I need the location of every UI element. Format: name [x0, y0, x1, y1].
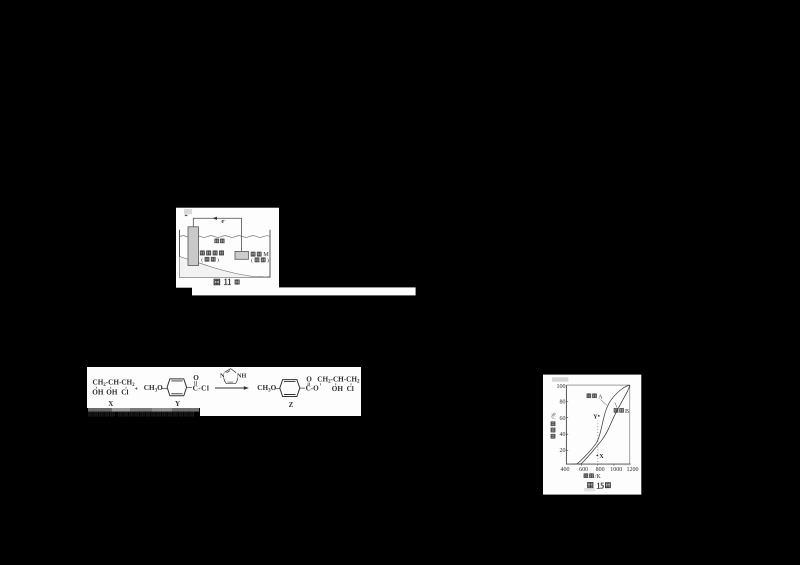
dashed line at 800K: [597, 421, 599, 464]
white panel: [176, 208, 279, 288]
svg-text:OH: OH: [106, 389, 118, 397]
point X: [596, 455, 598, 457]
bond ring-C: [187, 386, 192, 388]
white panel: [543, 375, 641, 495]
svg-text:X: X: [108, 400, 113, 408]
label water: [215, 239, 219, 243]
svg-text:600: 600: [579, 467, 588, 473]
label 曲线B: [614, 409, 618, 413]
svg-text:C-O: C-O: [306, 384, 320, 392]
y axis title 转化率/%: [551, 413, 557, 439]
svg-text:(: (: [201, 256, 203, 263]
x axis title 温度/K: [584, 474, 588, 478]
smudge: [584, 488, 595, 491]
svg-text:/K: /K: [595, 474, 602, 480]
svg-text:): ): [217, 256, 219, 263]
svg-text:60: 60: [560, 416, 566, 422]
beaker: [180, 230, 271, 277]
imidazole ring: [224, 369, 238, 384]
svg-text:Cl: Cl: [347, 385, 354, 393]
svg-text:Y: Y: [593, 413, 598, 420]
svg-text:20: 20: [560, 448, 566, 454]
axes: [566, 385, 630, 464]
bond ring-C: [300, 387, 305, 389]
caption strip: [192, 287, 416, 295]
svg-text:CH3O: CH3O: [144, 384, 163, 393]
svg-text:O: O: [193, 374, 199, 382]
svg-text:+: +: [134, 386, 138, 393]
benzene ring Y: [167, 379, 187, 396]
svg-text:Cl: Cl: [121, 389, 128, 397]
svg-text:80: 80: [560, 400, 566, 406]
caption 题15图: [588, 483, 593, 488]
svg-text:400: 400: [561, 467, 570, 473]
svg-text:M: M: [263, 251, 269, 258]
X bonds: [97, 387, 127, 389]
wire: [193, 218, 241, 251]
svg-text:C-Cl: C-Cl: [193, 384, 210, 392]
svg-text:X: X: [599, 453, 604, 460]
svg-text:NH: NH: [237, 372, 246, 379]
svg-text:CH2-CH-CH2: CH2-CH-CH2: [93, 379, 136, 388]
curve A: [572, 385, 630, 464]
steel facility electrode (cathode): [188, 227, 199, 266]
water surface: [180, 236, 270, 238]
svg-text:40: 40: [560, 432, 566, 438]
caption 题 11 图: [214, 279, 219, 284]
electron arrow: [213, 217, 218, 220]
pointer to curve A: [601, 400, 607, 406]
gray tab: [552, 377, 568, 381]
label 曲线A: [587, 394, 591, 398]
svg-text:/%: /%: [551, 413, 557, 420]
pointer to curve B: [615, 402, 617, 407]
svg-text:CH2-CH-CH2: CH2-CH-CH2: [317, 375, 360, 384]
label steel facility: [200, 251, 204, 255]
dark dash: [185, 215, 188, 216]
white panel: [87, 367, 361, 416]
benzene ring Z: [280, 380, 300, 397]
arrow: [215, 387, 245, 389]
svg-text:1000: 1000: [610, 467, 622, 473]
svg-text:B: B: [625, 409, 629, 415]
svg-text:1200: 1200: [627, 467, 639, 473]
svg-text:OH: OH: [332, 385, 344, 393]
svg-text:Z: Z: [289, 401, 294, 409]
curve B: [577, 385, 630, 464]
svg-text:OH: OH: [92, 389, 104, 397]
svg-text:(: (: [251, 257, 253, 264]
hidden dark text row: [89, 412, 194, 416]
svg-text:): ): [267, 257, 269, 264]
svg-text:CH3O: CH3O: [257, 384, 276, 393]
svg-text:Y: Y: [175, 400, 180, 408]
svg-text:800: 800: [596, 467, 605, 473]
chain bonds: [321, 383, 351, 385]
sediment shading: [180, 257, 271, 278]
y ticks: [566, 402, 568, 451]
svg-text:N: N: [220, 372, 225, 379]
sediment line: [180, 257, 265, 277]
gray tab: [184, 209, 192, 214]
plot frame top/right: [566, 385, 629, 464]
metal M electrode (anode): [235, 251, 248, 259]
svg-text:100: 100: [557, 384, 566, 390]
svg-text:O: O: [306, 376, 312, 384]
x ticks: [582, 464, 614, 466]
label metal M: [251, 252, 255, 256]
gray blocks row: [88, 408, 112, 412]
